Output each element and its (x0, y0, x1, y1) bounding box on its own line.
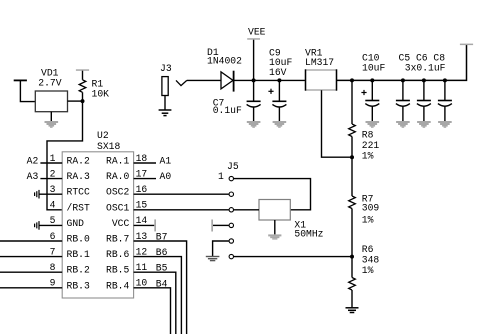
wire J5 pin5 (213, 241, 229, 257)
svg-text:11: 11 (136, 262, 148, 273)
regulator VR1 LM317 (305, 47, 337, 90)
svg-text:17: 17 (136, 168, 148, 179)
wire pin14 VCC stub (134, 224, 155, 226)
svg-text:13: 13 (136, 231, 148, 242)
svg-text:3: 3 (50, 184, 56, 195)
wire OSC1 to X1 (234, 209, 259, 211)
svg-text:OSC1: OSC1 (106, 202, 129, 213)
svg-text:SX18: SX18 (97, 141, 120, 152)
svg-text:J3: J3 (160, 63, 172, 74)
voltage detector VD1 (35, 68, 67, 112)
svg-text:B4: B4 (156, 278, 168, 289)
wire pin6 (0, 240, 62, 242)
resistor R1 10K (79, 71, 109, 101)
junction (422, 78, 426, 82)
power bar terminal at VCC (154, 219, 156, 231)
resistor R6 348 1% (349, 244, 380, 308)
svg-text:10: 10 (136, 278, 148, 289)
J5 pin 2 circle (229, 192, 233, 196)
junction (370, 78, 374, 82)
svg-text:1%: 1% (362, 215, 374, 226)
svg-text:16: 16 (136, 184, 148, 195)
svg-text:2: 2 (50, 168, 56, 179)
svg-text:16V: 16V (269, 67, 287, 78)
wire pin1 (40, 162, 62, 164)
svg-text:B5: B5 (156, 263, 168, 274)
junction (350, 78, 354, 82)
svg-text:RB.7: RB.7 (106, 234, 129, 245)
svg-text:10uF: 10uF (362, 63, 385, 74)
wire (234, 79, 305, 81)
connector chevron (176, 80, 187, 85)
wire pin17 (134, 178, 156, 180)
svg-text:GND: GND (67, 218, 85, 229)
svg-text:1%: 1% (362, 265, 374, 276)
power bar terminal at J5 pin4 (211, 220, 213, 232)
power bar terminal top right (460, 44, 473, 46)
J5 pin 1 circle (229, 176, 233, 180)
svg-text:8: 8 (50, 262, 56, 273)
svg-text:10K: 10K (92, 89, 110, 100)
wire pin16 OSC2 (134, 193, 229, 195)
svg-text:RB.2: RB.2 (67, 265, 90, 276)
wire pin11 B5 (134, 272, 176, 334)
svg-text:B6: B6 (156, 247, 168, 258)
ground (346, 308, 359, 313)
ground (206, 257, 220, 261)
wire (187, 79, 221, 81)
J5 pin 6 circle (229, 254, 233, 258)
wire (253, 40, 255, 81)
svg-text:R6: R6 (362, 244, 374, 255)
svg-text:9: 9 (50, 278, 56, 289)
svg-text:3x0.1uF: 3x0.1uF (405, 63, 446, 74)
wire pin3 (39, 193, 62, 195)
svg-text:VCC: VCC (112, 218, 130, 229)
svg-text:RA.1: RA.1 (106, 156, 129, 167)
ground (268, 220, 281, 240)
U2 right pin numbers 18-10 (136, 153, 148, 289)
svg-text:OSC2: OSC2 (106, 187, 129, 198)
svg-text:RB.3: RB.3 (67, 280, 90, 291)
svg-text:6: 6 (50, 231, 56, 242)
capacitor C8 (438, 80, 452, 121)
svg-text:RB.5: RB.5 (106, 265, 129, 276)
svg-text:14: 14 (136, 215, 148, 226)
connector J3 (160, 63, 172, 96)
wire pin13 B7 (134, 241, 187, 334)
ground sideways at GND pin (35, 221, 39, 230)
svg-text:RA.3: RA.3 (67, 171, 90, 182)
J5 pin 3 circle (229, 208, 233, 212)
wire pin10 B4 (134, 288, 171, 334)
wire (68, 100, 83, 102)
svg-text:RB.4: RB.4 (106, 280, 129, 291)
junction (401, 78, 405, 82)
capacitor C6 (417, 80, 431, 121)
wire /RST net (47, 101, 83, 210)
svg-text:50MHz: 50MHz (294, 229, 323, 240)
ground (396, 121, 410, 128)
wire pin7 (0, 256, 62, 258)
wire VR1 adjust (322, 90, 353, 157)
capacitor C10 10uF (361, 52, 385, 121)
power bar terminal above R1 (76, 69, 89, 71)
svg-text:18: 18 (136, 153, 148, 164)
junction (277, 78, 281, 82)
ground (247, 121, 261, 128)
ground (438, 121, 452, 128)
resistor R8 221 1% (349, 80, 380, 161)
wire pin5 (39, 224, 62, 226)
svg-text:12: 12 (136, 246, 148, 257)
wire (20, 81, 35, 102)
svg-text:1%: 1% (362, 150, 374, 161)
svg-text:15: 15 (136, 200, 148, 211)
svg-text:309: 309 (362, 202, 380, 213)
capacitor C5 (396, 80, 410, 121)
wire J5 pin6 (234, 256, 352, 258)
svg-text:U2: U2 (97, 130, 109, 141)
wire J5 pin4 (213, 224, 229, 226)
VEE power terminal (247, 26, 265, 39)
resistor R7 309 1% (349, 157, 380, 256)
svg-text:R8: R8 (362, 129, 374, 140)
wire pin9 (0, 287, 62, 289)
ground sideways at RTCC (35, 190, 39, 199)
wire pin15 OSC1 (134, 209, 229, 211)
svg-text:J5: J5 (227, 161, 239, 172)
U2 right pin labels (106, 156, 129, 292)
svg-text:RTCC: RTCC (67, 187, 90, 198)
ground (417, 121, 431, 128)
IC U2 SX18 body (62, 130, 133, 298)
svg-text:/RST: /RST (67, 202, 90, 213)
svg-text:4: 4 (50, 200, 56, 211)
junction (443, 78, 447, 82)
J5 pin 4 circle (229, 223, 233, 227)
svg-text:1: 1 (218, 171, 224, 182)
svg-text:B7: B7 (156, 232, 168, 243)
svg-text:1N4002: 1N4002 (207, 55, 242, 66)
svg-text:RB.0: RB.0 (67, 234, 90, 245)
ground (45, 112, 59, 128)
connector J5 (218, 161, 239, 182)
J5 pin 5 circle (229, 239, 233, 243)
wire J5 pin1 to X1 (234, 179, 311, 210)
junction (350, 155, 354, 159)
wire pin12 B6 (134, 257, 182, 334)
svg-text:A2: A2 (27, 156, 39, 167)
svg-text:RB.6: RB.6 (106, 249, 129, 260)
svg-text:RA.0: RA.0 (106, 171, 129, 182)
svg-text:VEE: VEE (248, 26, 266, 37)
junction (81, 99, 85, 103)
svg-text:2.7V: 2.7V (38, 78, 61, 89)
capacitor C7 0.1uF (213, 80, 261, 121)
svg-text:A0: A0 (160, 171, 172, 182)
svg-text:LM317: LM317 (305, 57, 334, 68)
wire pin18 (134, 162, 156, 164)
svg-text:A3: A3 (27, 171, 39, 182)
U2 left pin labels (67, 156, 90, 292)
wire pin8 (0, 271, 62, 273)
svg-text:5: 5 (50, 215, 56, 226)
junction (350, 255, 354, 259)
svg-text:221: 221 (362, 140, 380, 151)
svg-text:348: 348 (362, 255, 380, 266)
svg-text:7: 7 (50, 246, 56, 257)
power bar terminal left of VD1 (14, 80, 27, 82)
ground (366, 121, 380, 128)
svg-text:RA.2: RA.2 (67, 156, 90, 167)
ground (273, 121, 287, 128)
svg-text:0.1uF: 0.1uF (213, 105, 242, 116)
svg-text:1: 1 (50, 153, 56, 164)
diode D1 1N4002 (207, 47, 242, 92)
label C5 C6 C8 (399, 52, 446, 73)
wire output rail (337, 45, 467, 81)
U2 left pin numbers 1-9 (50, 153, 56, 289)
junction (252, 78, 256, 82)
svg-text:RB.1: RB.1 (67, 249, 90, 260)
ground (159, 96, 172, 116)
wire pin2 (40, 178, 62, 180)
capacitor C9 10uF 16V (268, 47, 292, 121)
crystal oscillator X1 50MHz (259, 200, 324, 240)
svg-text:A1: A1 (160, 156, 172, 167)
